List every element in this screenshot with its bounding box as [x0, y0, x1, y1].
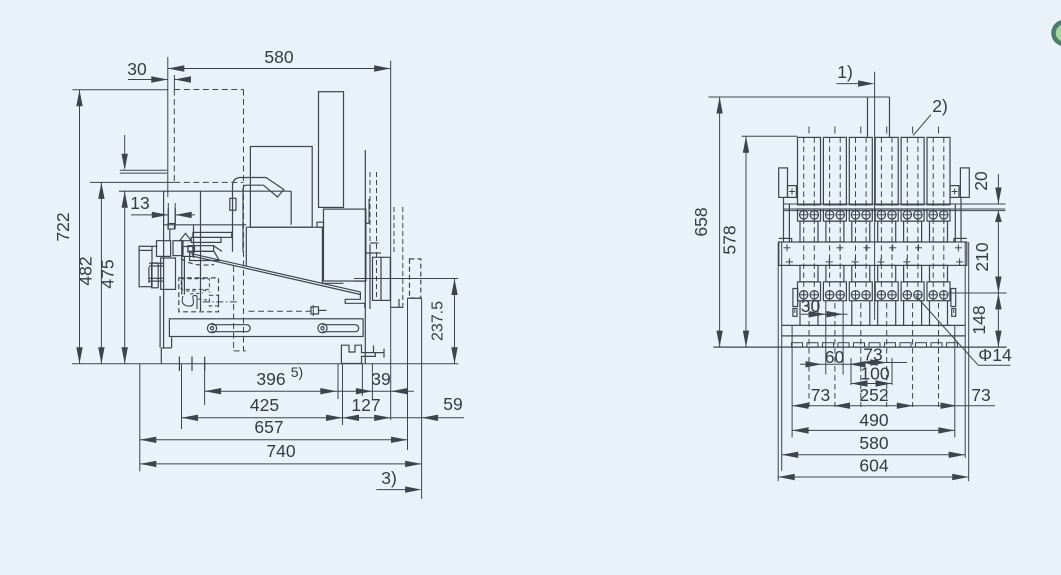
- right slide bracket: [370, 242, 379, 244]
- reference line y=182.4: [90, 181, 174, 183]
- main drive arm diagonal: [191, 254, 360, 292]
- handle clip: [230, 198, 236, 210]
- breaker body box: [245, 227, 247, 266]
- rear upper box: [324, 209, 366, 281]
- svg-text:59: 59: [443, 394, 462, 414]
- right rear dashed box: [410, 259, 421, 298]
- svg-text:39: 39: [371, 369, 390, 389]
- bottom mount ticks: [178, 357, 180, 372]
- svg-text:658: 658: [691, 207, 711, 236]
- lower terminal blocks with screws: [798, 282, 821, 301]
- dim row 73 252 73: [792, 405, 995, 407]
- front plate left edge: [163, 191, 165, 348]
- lift tab top: [708, 96, 889, 98]
- contact blocks: [157, 241, 171, 257]
- svg-text:210: 210: [972, 242, 992, 271]
- arm bolt: [311, 307, 319, 314]
- chassis top line: [784, 203, 1006, 205]
- relay box upper: [250, 147, 312, 228]
- rail slot right: [323, 325, 359, 332]
- svg-text:475: 475: [97, 259, 117, 288]
- dashed pivot arc: [181, 259, 214, 266]
- svg-text:148: 148: [969, 305, 989, 334]
- chassis + marks: [784, 247, 791, 249]
- svg-text:657: 657: [254, 417, 283, 437]
- svg-text:Φ14: Φ14: [978, 345, 1012, 365]
- top extension line y=89.7: [73, 89, 168, 91]
- dim 13: [131, 214, 168, 216]
- dim 30 top: [128, 79, 168, 81]
- mechanism verticals: [200, 191, 202, 311]
- extension line x=167.8: [167, 57, 169, 197]
- side boxes at base: [793, 289, 798, 307]
- svg-text:578: 578: [720, 225, 740, 254]
- dim 604: [778, 476, 969, 478]
- right guide dashed pair: [393, 207, 395, 255]
- svg-text:1): 1): [837, 62, 853, 82]
- svg-text:580: 580: [264, 47, 293, 67]
- dim 578: [745, 136, 747, 347]
- dim 657: [140, 439, 408, 441]
- svg-text:490: 490: [859, 410, 888, 430]
- dim 658: [719, 97, 721, 347]
- right foot bracket: [341, 345, 375, 363]
- dim 580 bottom: [782, 454, 966, 456]
- svg-text:580: 580: [859, 433, 888, 453]
- svg-text:5): 5): [291, 364, 303, 380]
- dashed door swing rectangle: [174, 89, 243, 91]
- reference line pair y=170-173: [120, 169, 167, 171]
- svg-text:73: 73: [971, 385, 990, 405]
- base plate lines: [782, 324, 966, 326]
- dim row 396 / 39: [205, 390, 414, 392]
- green status ball top right corner: [1054, 22, 1061, 44]
- dim row 425 / 127 / 59: [182, 417, 465, 419]
- left foot: [160, 348, 162, 364]
- dashed spring box: [179, 278, 219, 312]
- six interrupter pole columns: [798, 137, 821, 204]
- svg-text:2): 2): [932, 96, 948, 116]
- svg-text:604: 604: [859, 456, 888, 476]
- side tabs and bolts: [779, 168, 788, 198]
- right side panel line: [364, 150, 366, 364]
- ground reference line: [72, 363, 458, 365]
- lower stems to base: [799, 301, 801, 326]
- svg-text:100: 100: [860, 364, 889, 384]
- svg-text:30: 30: [127, 59, 147, 79]
- side walls: [777, 242, 779, 481]
- extension tick x=174.4: [173, 75, 175, 90]
- terminal top double line: [784, 208, 1006, 210]
- chassis band: [779, 242, 967, 265]
- dashed lines lower center: [233, 266, 235, 351]
- lower terminal stems: [800, 265, 818, 282]
- svg-text:252: 252: [859, 385, 888, 405]
- dim 722 vertical: [79, 90, 81, 364]
- dim 30 extension lines through base: [825, 301, 827, 375]
- dim 482 vertical: [100, 182, 102, 363]
- svg-text:237.5: 237.5: [430, 301, 447, 341]
- section line 1): [874, 72, 876, 320]
- dim 20 right: [969, 203, 1005, 205]
- small unlabeled dim arrow above 475: [124, 135, 126, 168]
- top plate line: [119, 190, 291, 192]
- dim 740: [140, 463, 422, 465]
- pole dashed centerlines: [808, 127, 810, 134]
- cradle rail box: [169, 319, 363, 337]
- dim 475 vertical: [124, 191, 126, 363]
- dim 148 right: [949, 292, 1007, 294]
- upper terminal blocks with screws: [798, 209, 821, 221]
- left terminal bolts: [149, 262, 164, 264]
- svg-text:127: 127: [351, 395, 380, 415]
- dim 490: [792, 429, 955, 431]
- small step under chute: [317, 222, 324, 227]
- svg-text:425: 425: [250, 395, 279, 415]
- rail slot left: [211, 325, 250, 332]
- dim 580 top horizontal: [168, 68, 391, 70]
- mechanism bars: [193, 232, 232, 237]
- dim phi14 leader: [916, 296, 978, 365]
- operating handle hook: [233, 178, 284, 252]
- dim 210 right: [997, 211, 999, 293]
- svg-text:482: 482: [76, 256, 96, 285]
- right dashed guides: [369, 172, 371, 245]
- dim 237.5 vertical right: [354, 278, 458, 280]
- svg-text:73: 73: [811, 385, 830, 405]
- svg-text:3): 3): [381, 468, 397, 488]
- svg-text:740: 740: [266, 441, 295, 461]
- ext line y=136.3: [742, 135, 798, 137]
- extension line x=390.7 tall right: [390, 61, 392, 420]
- svg-text:722: 722: [53, 212, 73, 241]
- svg-text:396: 396: [256, 369, 285, 389]
- upper terminal stems: [800, 221, 818, 242]
- svg-text:20: 20: [971, 171, 991, 191]
- arc chute tall box: [319, 92, 344, 208]
- base tabs: [792, 343, 803, 347]
- svg-text:13: 13: [130, 193, 149, 213]
